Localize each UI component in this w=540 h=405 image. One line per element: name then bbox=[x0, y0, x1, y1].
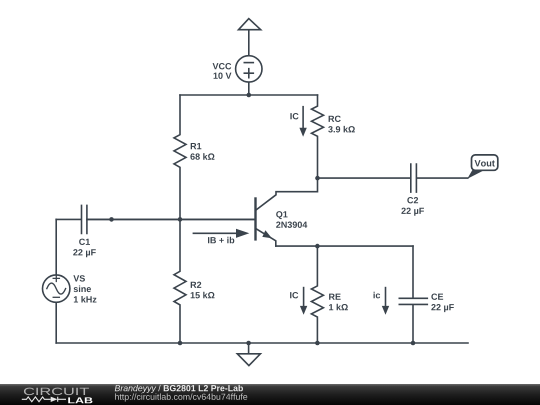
label current IC at RE bbox=[290, 292, 298, 298]
resistor RC bbox=[312, 95, 324, 178]
power flag VCC arrow bbox=[239, 19, 261, 56]
current arrow IC at RC bbox=[299, 107, 306, 137]
label VS bbox=[73, 275, 85, 281]
current arrow IB + ib bbox=[193, 229, 249, 238]
node flag Vout bbox=[467, 155, 498, 179]
label R2 bbox=[191, 282, 202, 288]
footer url bbox=[115, 393, 247, 401]
junction dot node CE bottom bbox=[411, 341, 416, 346]
label CE bbox=[431, 294, 443, 300]
label R1 bbox=[191, 143, 202, 149]
footer bar bbox=[0, 384, 540, 405]
logo word CIRCUIT bbox=[24, 388, 89, 395]
label RC bbox=[329, 116, 341, 122]
junction dot node collector bbox=[315, 176, 320, 181]
label Q1 part 2N3904 bbox=[276, 222, 307, 228]
resistor RE bbox=[311, 246, 323, 343]
label current ic at CE bbox=[374, 292, 381, 299]
ground bbox=[237, 343, 260, 366]
junction dot node RE bottom bbox=[315, 341, 320, 346]
voltage source VS sine bbox=[43, 219, 70, 343]
current arrow IC at RE bbox=[300, 288, 307, 315]
label C1 value 22 uF bbox=[73, 249, 96, 257]
transistor Q1 bbox=[256, 178, 318, 246]
capacitor C2 bbox=[318, 164, 468, 192]
junction dot node emitter/RE bbox=[315, 244, 320, 249]
resistor R1 bbox=[174, 95, 186, 219]
label current IB + ib bbox=[208, 237, 234, 244]
voltage source VCC bbox=[236, 56, 262, 95]
wire emitter rail bbox=[276, 245, 413, 247]
current arrow ic at CE bbox=[382, 288, 389, 315]
junction dot node R2/ground rail bbox=[178, 341, 183, 346]
label RE value 1 kOhm bbox=[329, 304, 348, 311]
capacitor C1 bbox=[56, 205, 254, 233]
capacitor CE bbox=[399, 246, 427, 343]
label CE value 22 uF bbox=[431, 304, 454, 312]
label VCC value 10 V bbox=[214, 73, 232, 79]
label R2 value 15 kOhm bbox=[191, 292, 215, 299]
label C2 bbox=[407, 197, 418, 203]
wire bottom rail bbox=[56, 342, 468, 344]
label VS type sine bbox=[74, 285, 91, 292]
label VS value 1 kHz bbox=[74, 296, 97, 303]
label VCC bbox=[213, 63, 232, 69]
label Vout text bbox=[475, 160, 495, 166]
wire base rail bbox=[87, 218, 255, 220]
resistor R2 bbox=[174, 219, 186, 343]
logo word LAB bbox=[68, 397, 92, 403]
label C1 bbox=[79, 239, 90, 245]
label R1 value 68 kOhm bbox=[190, 153, 214, 160]
label RE bbox=[329, 294, 341, 300]
junction dot node R1/R2/base bbox=[178, 217, 183, 222]
label current IC at RC bbox=[290, 113, 298, 119]
label Q1 bbox=[276, 211, 287, 219]
junction dot node ground bbox=[246, 341, 251, 346]
logo circuit squiggle bbox=[22, 397, 66, 402]
footer title Brandeyyy / BG2801 L2 Pre-Lab bbox=[115, 385, 243, 393]
label C2 value 22 uF bbox=[401, 208, 424, 216]
junction dot node base wire left bbox=[109, 217, 114, 222]
wire top rail bbox=[180, 94, 318, 96]
label RC value 3.9 kOhm bbox=[328, 126, 355, 133]
junction dot node VCC/top rail bbox=[247, 93, 252, 98]
